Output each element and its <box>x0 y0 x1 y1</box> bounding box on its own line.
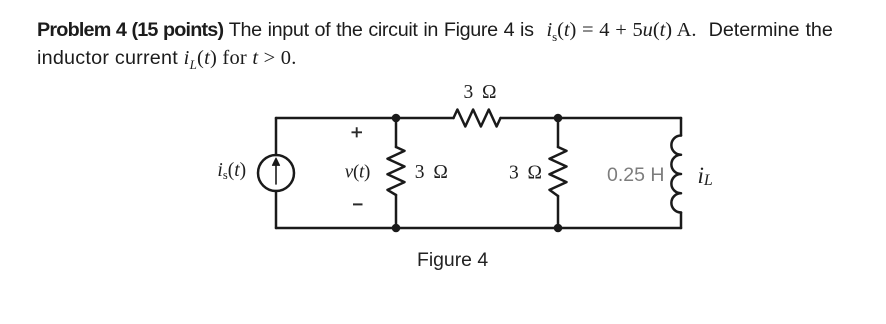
label plus <box>352 127 363 137</box>
wire left <box>275 118 278 228</box>
svg-text:is(t): is(t) <box>217 160 246 182</box>
caption Figure 4 <box>417 250 488 270</box>
resistor R3 3ohm vertical right <box>550 147 567 196</box>
resistor R2 3ohm vertical left <box>388 147 405 195</box>
svg-text:iL: iL <box>698 163 713 189</box>
svg-text:3 Ω: 3 Ω <box>464 82 497 103</box>
node dot bottom-left <box>392 224 401 233</box>
wire top <box>276 117 681 120</box>
wire bottom <box>276 227 681 230</box>
inductor L1 0.25H <box>671 136 681 213</box>
node dot top-right <box>554 114 563 123</box>
current source IS <box>258 155 294 191</box>
problem statement line 1 <box>37 17 833 50</box>
resistor R1 3ohm horizontal top <box>454 110 501 127</box>
node dot top-left <box>392 114 401 123</box>
current source arrow <box>275 162 277 184</box>
svg-text:3 Ω: 3 Ω <box>509 162 542 183</box>
label minus <box>353 203 363 205</box>
wire right <box>680 118 683 228</box>
svg-text:3 Ω: 3 Ω <box>415 162 448 183</box>
wire node column 2 <box>557 118 560 228</box>
wire node column 1 <box>395 118 398 228</box>
svg-text:v(t): v(t) <box>345 161 370 182</box>
problem statement line 2 <box>37 45 297 78</box>
node dot bottom-right <box>554 224 563 233</box>
svg-text:0.25 H: 0.25 H <box>607 164 664 186</box>
